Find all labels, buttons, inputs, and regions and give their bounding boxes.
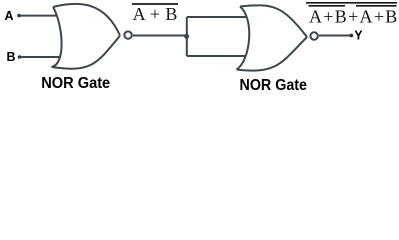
NOR gate 2 body: [237, 5, 308, 70]
input terminal dot A: [17, 14, 21, 18]
NOR gate 1 inversion bubble: [124, 31, 131, 38]
wire A to gate 1 top input: [19, 15, 58, 17]
svg-text:A+B+A+B: A+B+A+B: [309, 6, 397, 26]
wire node to gate 2 bottom input: [187, 55, 246, 57]
net label overline(A+B): [132, 4, 178, 24]
svg-text:NOR Gate: NOR Gate: [41, 75, 110, 92]
wire node vertical segment: [186, 17, 188, 56]
output net label overline(overline(A+B)+overline(A+B)): [306, 3, 397, 27]
wire node to gate 2 top input: [187, 16, 246, 18]
node junction dot: [184, 34, 189, 39]
svg-text:A + B: A + B: [133, 4, 178, 24]
output terminal dot Y: [349, 34, 353, 38]
svg-text:B: B: [7, 50, 16, 64]
svg-text:NOR Gate: NOR Gate: [240, 77, 308, 94]
NOR gate 1 body: [52, 4, 121, 69]
NOR gate 2 inversion bubble: [310, 32, 317, 39]
svg-text:A: A: [5, 9, 14, 23]
svg-text:Y: Y: [354, 28, 363, 42]
input terminal dot B: [18, 55, 22, 59]
wire gate 2 output to Y: [319, 35, 351, 37]
wire gate 1 output to node: [133, 35, 187, 37]
wire B to gate 1 bottom input: [20, 56, 61, 58]
